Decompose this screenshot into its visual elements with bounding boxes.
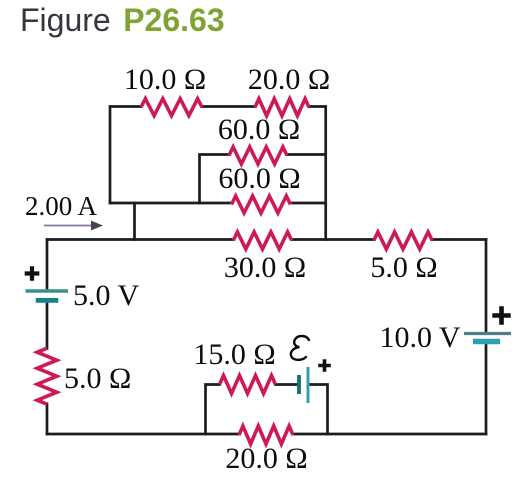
svg-text:10.0 Ω: 10.0 Ω <box>124 63 206 96</box>
svg-text:2.00 A: 2.00 A <box>25 191 98 221</box>
svg-text:20.0 Ω: 20.0 Ω <box>225 442 307 475</box>
svg-text:20.0 Ω: 20.0 Ω <box>248 63 330 96</box>
svg-text:15.0 Ω: 15.0 Ω <box>193 338 275 371</box>
svg-text:FigureP26.63: FigureP26.63 <box>20 2 225 38</box>
svg-text:30.0 Ω: 30.0 Ω <box>224 251 306 284</box>
svg-text:5.0 V: 5.0 V <box>73 279 139 312</box>
svg-text:10.0 V: 10.0 V <box>379 321 460 354</box>
svg-text:5.0 Ω: 5.0 Ω <box>64 362 131 395</box>
svg-text:60.0 Ω: 60.0 Ω <box>218 113 300 146</box>
svg-text:5.0 Ω: 5.0 Ω <box>370 251 437 284</box>
svg-text:60.0 Ω: 60.0 Ω <box>218 162 300 195</box>
